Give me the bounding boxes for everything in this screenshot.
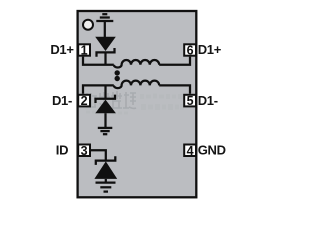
wire: pin3 to D3 (91, 150, 106, 160)
net label D1- (left) (52, 93, 72, 108)
net label ID (56, 143, 68, 158)
ground (below D2) (98, 128, 113, 134)
net label D1+ (right) (198, 42, 222, 57)
net label D1- (right) (198, 93, 218, 108)
svg-text:GND: GND (198, 143, 226, 158)
svg-text:3: 3 (81, 144, 88, 158)
inductor bottom winding L1b (114, 81, 159, 89)
phase dot (top winding) (115, 70, 120, 75)
svg-text:1: 1 (81, 44, 88, 58)
svg-text:D1-: D1- (198, 93, 218, 108)
ground (below D3) (96, 183, 116, 192)
pin 5 (184, 94, 196, 108)
pin 2 (78, 94, 90, 108)
phase dot (bottom winding) (115, 76, 120, 81)
svg-text:6: 6 (187, 44, 194, 58)
wire: pin1 to top winding (83, 57, 114, 65)
svg-text:ID: ID (56, 143, 68, 158)
pin 1 indicator circle (83, 20, 93, 30)
pin 6 (184, 44, 196, 58)
pin 3 (78, 144, 90, 158)
wire: pin2 to bottom winding (83, 85, 114, 93)
svg-text:D1+: D1+ (50, 42, 74, 57)
net label GND (198, 143, 226, 158)
inductor top winding L1a (114, 60, 159, 68)
diode D3 (TVS, cathode up) (94, 156, 117, 182)
svg-text:4: 4 (187, 144, 194, 158)
svg-text:D1-: D1- (52, 93, 72, 108)
watermark (85, 91, 136, 108)
diode D2 (TVS, cathode up) (95, 85, 116, 127)
diode D1 (TVS, cathode down) (95, 37, 116, 66)
svg-text:5: 5 (187, 94, 194, 108)
IC package body (78, 11, 197, 197)
wire: top winding to pin6 (159, 57, 190, 65)
net label D1+ (left) (50, 42, 74, 57)
svg-text:2: 2 (81, 94, 88, 108)
wire: bottom winding to pin5 (159, 85, 190, 93)
pin 1 (78, 44, 90, 58)
svg-text:D1+: D1+ (198, 42, 222, 57)
ground (top, inverted) (96, 14, 113, 37)
pin 4 (184, 144, 196, 158)
